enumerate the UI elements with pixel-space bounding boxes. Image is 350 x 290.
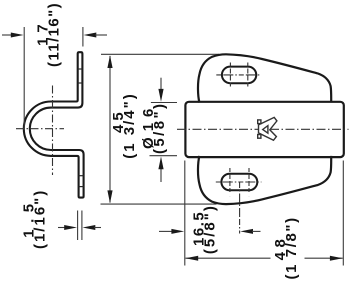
- top slot: [222, 67, 256, 84]
- dim 1.5 extension lines: [78, 211, 82, 241]
- dim 17 arrows: [2, 33, 107, 38]
- side view: formed strip profile: [24, 52, 84, 197]
- dim 16.5 arrows: [159, 229, 261, 234]
- slot edge ticks on top tab: [78, 69, 84, 187]
- svg-text:(11/16"): (11/16"): [45, 2, 62, 67]
- dim O16 line and arrows: [158, 78, 163, 182]
- dim O16 extension lines: [150, 103, 178, 156]
- svg-text:(1/16"): (1/16"): [32, 189, 49, 249]
- dim 45 extension lines: [101, 54, 220, 204]
- dim 16.5 label: [191, 204, 219, 254]
- plan view: top hump outline: [198, 54, 331, 102]
- dim 17 extension lines: [24, 27, 83, 130]
- bottom slot center axis down to dim: [239, 182, 241, 234]
- dim 1.5 label: [21, 189, 49, 249]
- dim 45 label: [110, 92, 138, 158]
- slot edge ticks on bottom tab: [79, 175, 84, 177]
- svg-text:(1 3/4"): (1 3/4"): [121, 92, 138, 158]
- dim O16 label: [140, 102, 168, 154]
- dim 17 label: [34, 2, 62, 67]
- plan view: mounting plate body: [185, 102, 343, 157]
- dim 16.5 / 48 shared extension lines: [185, 161, 343, 266]
- dim 48 line and arrows: [185, 256, 342, 261]
- bottom slot: [221, 174, 257, 191]
- hafele logo A rotated: [258, 117, 277, 140]
- bottom slot centerlines: [216, 168, 262, 234]
- top slot centerlines: [216, 63, 261, 89]
- plan view main centerline: [177, 128, 349, 130]
- svg-text:(5/8"): (5/8"): [202, 204, 219, 254]
- svg-text:(1 7/8"): (1 7/8"): [283, 216, 300, 279]
- svg-text:(5/8"): (5/8"): [151, 102, 168, 154]
- side view centerlines: [16, 86, 64, 176]
- dim 1.5 arrows: [58, 225, 101, 230]
- dim 48 label: [272, 216, 300, 279]
- dim 45 line and arrows: [107, 55, 112, 203]
- plan view: bottom hump outline: [198, 156, 331, 204]
